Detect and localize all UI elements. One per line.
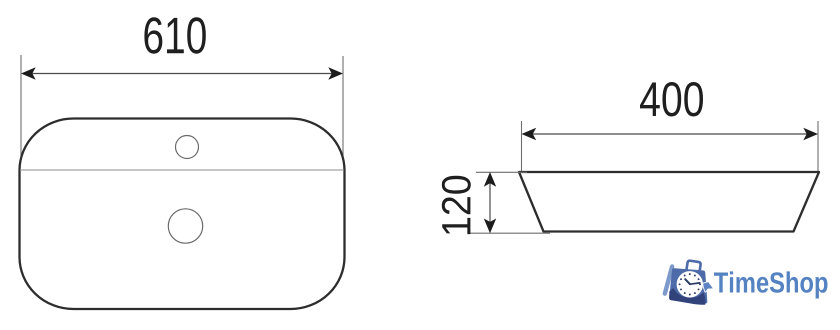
logo clock face bbox=[677, 271, 703, 297]
arrowhead right bbox=[328, 67, 343, 79]
extension line left bbox=[20, 55, 22, 170]
dimension line 400 bbox=[527, 133, 812, 135]
dimension text 610 bbox=[144, 17, 205, 53]
extension line 400 right bbox=[817, 121, 819, 171]
drain hole bbox=[168, 209, 202, 243]
logo arrowhead white halo bbox=[703, 282, 713, 292]
basin side profile (trapezoid) bbox=[519, 172, 819, 232]
faucet hole bbox=[176, 136, 199, 159]
logo clock minute hand bbox=[690, 283, 700, 284]
rim line bbox=[20, 169, 344, 171]
logo clock ticks bbox=[679, 273, 701, 295]
dimension text 400 bbox=[640, 82, 703, 116]
basin outline (rounded rect) bbox=[20, 119, 345, 310]
logo stripe (back bag edge) bbox=[662, 264, 675, 297]
logo bag handle bbox=[686, 260, 701, 272]
extension line 120 bottom bbox=[470, 232, 551, 234]
logo swoosh bbox=[669, 288, 705, 305]
logo bag body bbox=[669, 268, 707, 303]
arrowhead 400 right bbox=[803, 128, 818, 140]
dimension text 120 bbox=[442, 176, 471, 234]
extension line right bbox=[342, 56, 344, 170]
logo clock hour hand bbox=[685, 279, 690, 284]
logo arrowhead bbox=[703, 282, 713, 292]
dimension line 610 bbox=[27, 73, 337, 75]
dimension line 120 bbox=[489, 178, 491, 228]
arrowhead 120 bottom bbox=[484, 219, 496, 234]
arrowhead left bbox=[21, 67, 36, 79]
extension line 120 top bbox=[476, 171, 527, 173]
arrowhead 400 left bbox=[522, 128, 537, 140]
logo text TimeShop bbox=[714, 271, 827, 298]
arrowhead 120 top bbox=[484, 172, 496, 187]
extension line 400 left bbox=[521, 121, 523, 171]
